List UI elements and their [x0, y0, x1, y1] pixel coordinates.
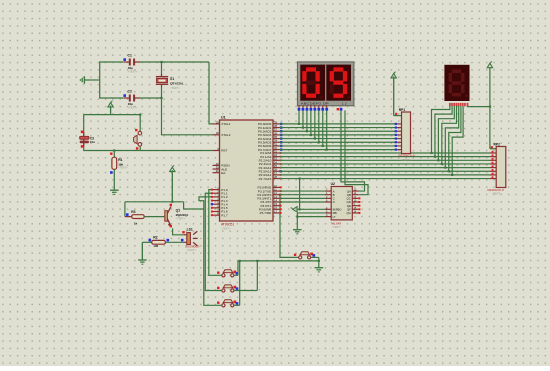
pin P1.1 (2) [213, 192, 220, 194]
svg-text:ABCDEFG DP: ABCDEFG DP [301, 101, 329, 105]
U2 pin QF (15) [352, 208, 359, 210]
wire P3.1 to U2 input [280, 190, 325, 192]
svg-text:24: 24 [274, 160, 277, 164]
svg-text:LS1: LS1 [187, 227, 193, 231]
wire 7seg2 pin 3 drop [310, 110, 312, 135]
svg-text:R1: R1 [118, 158, 122, 162]
power +5V arrow (reset circuit) [110, 106, 112, 115]
wire VCC rail corner to P1 column [184, 202, 204, 209]
wire RBI/LT to ground [296, 213, 298, 230]
wire 7seg1 segment 3 staircase [442, 106, 457, 164]
svg-text:38: 38 [274, 124, 277, 128]
svg-text:18: 18 [216, 131, 219, 135]
pin P1.0 (1) [213, 189, 220, 191]
svg-text:<TEXT>: <TEXT> [170, 86, 180, 90]
svg-text:2N2222A: 2N2222A [176, 213, 190, 217]
svg-text:10u: 10u [90, 140, 95, 144]
wire P0.1 bus row [280, 127, 395, 129]
pin P2.5 (26) [273, 170, 280, 172]
svg-text:RBI: RBI [333, 211, 338, 215]
svg-text:U1: U1 [221, 115, 226, 119]
wire down to R3 [124, 202, 126, 217]
wire 7seg2 pin 6 drop [322, 110, 324, 146]
resistor R3 [125, 216, 132, 218]
wire P0.6 bus row [280, 145, 395, 147]
pin P2.4 (25) [273, 167, 280, 169]
push button reset (vertical) [139, 115, 141, 131]
wire VCC rail of sounder circuit [125, 201, 184, 203]
display pins [298, 108, 301, 111]
svg-text:25: 25 [274, 164, 277, 168]
digit 0 [306, 67, 316, 71]
wire K3 to gnd rail [239, 261, 241, 305]
svg-text:<TEXT>: <TEXT> [492, 192, 502, 196]
transistor Q1 [165, 211, 168, 222]
wire crystal bottom to XTAL2 [162, 86, 213, 135]
svg-text:LT: LT [333, 215, 336, 219]
pin P2.3 (24) [273, 163, 280, 165]
resistor R1 [113, 151, 115, 158]
wire P3.2 to U2 input [280, 194, 325, 196]
svg-text:26: 26 [274, 168, 277, 172]
svg-text:X1: X1 [170, 77, 174, 81]
push button K3 [223, 300, 233, 303]
svg-text:<TEXT>: <TEXT> [221, 227, 231, 231]
wire display common to RP2 column [467, 105, 490, 108]
wire to ground stem [318, 257, 320, 267]
svg-text:QG: QG [346, 211, 351, 215]
svg-text:RESPACK-8: RESPACK-8 [399, 154, 416, 158]
wire K1 right [234, 274, 238, 276]
push button K4 [300, 252, 310, 255]
svg-text:10: 10 [274, 184, 277, 188]
dual 7-segment display (red, showing 09) [297, 62, 354, 106]
wire K4 right [311, 256, 319, 258]
wire BI net [297, 208, 324, 210]
wire Q1 emitter to LS1 [173, 228, 185, 235]
wire R1 to ground [113, 169, 115, 190]
svg-text:<TEXT>: <TEXT> [176, 217, 186, 221]
push button K2 [223, 285, 233, 288]
pin P3.5 (15) [273, 205, 280, 207]
svg-text:D: D [333, 200, 335, 204]
wire to left ground [84, 79, 99, 81]
wire RST net to U1 [84, 150, 213, 152]
svg-text:16: 16 [274, 206, 277, 210]
svg-text:C1: C1 [128, 53, 132, 57]
U2 pin QA (13) [352, 190, 359, 192]
wire LT net [297, 216, 324, 218]
power +5V arrow above RP1 [393, 77, 395, 116]
svg-text:30p: 30p [128, 66, 133, 70]
wire P0.7 bus row [280, 149, 395, 151]
wire RP2 common [490, 148, 496, 150]
wire down to XTAL1 pin [209, 62, 213, 124]
svg-text:12: 12 [274, 191, 277, 195]
svg-text:19: 19 [216, 120, 219, 124]
wire C2 left lead net [100, 97, 124, 99]
wire K1 to gnd rail [237, 261, 239, 275]
wire P2.1 segment row [280, 156, 490, 158]
U2 pin D (6) [325, 201, 332, 203]
display bottom label strip [300, 101, 351, 105]
wire 7seg2 pin 5 drop [318, 110, 320, 142]
svg-text:<TEXT>: <TEXT> [128, 69, 138, 73]
wire P2.6 segment row [280, 174, 490, 176]
wire P2.5 segment row [280, 170, 490, 172]
capacitor C1 [124, 61, 130, 63]
pin P0.6 (33) [273, 145, 280, 147]
wire P2.7 segment row [280, 178, 490, 180]
svg-text:13: 13 [274, 195, 277, 199]
wire 7seg2 pin 2 drop [306, 110, 308, 131]
U2 pin QD (10) [352, 201, 359, 203]
U2 pin QE (9) [352, 205, 359, 207]
pin P3.2 (12) [273, 194, 280, 196]
ground at U2 [293, 229, 302, 231]
svg-text:33: 33 [274, 142, 277, 146]
wire RBI net [297, 212, 324, 214]
svg-text:29: 29 [216, 162, 219, 166]
wire P2.7 tap down to BI [299, 179, 301, 210]
wire P0.3 bus row [280, 134, 395, 136]
wire ground rail [238, 260, 319, 262]
svg-text:CRYSTAL: CRYSTAL [170, 82, 184, 86]
pin P0.0 (39) [273, 123, 280, 125]
sounder LS1 [184, 234, 187, 236]
svg-text:30p: 30p [128, 102, 133, 106]
ground below R2 [138, 259, 147, 261]
pin P2.0 (21) [273, 152, 280, 154]
svg-text:28: 28 [274, 175, 277, 179]
U2 pin B (1) [325, 194, 332, 196]
ground below R1 [110, 189, 119, 191]
U2 pin QC (11) [352, 197, 359, 199]
pin P0.4 (35) [273, 138, 280, 140]
wire P3.4 to U2 input [280, 201, 325, 203]
pin P1.5 (6) [213, 207, 220, 209]
wire P2.3 segment row [280, 163, 490, 165]
wire vertical joining C1/C2 left [99, 61, 101, 98]
svg-text:22: 22 [274, 153, 277, 157]
U2 pin A (7) [325, 190, 332, 192]
pin P1.3 (4) [213, 200, 220, 202]
wire display digit1 common to QA [341, 110, 365, 191]
wire P0.4 bus row [280, 138, 395, 140]
svg-text:P3.7/RD: P3.7/RD [260, 211, 272, 215]
svg-text:RESPACK-8: RESPACK-8 [488, 188, 505, 192]
svg-text:U2: U2 [331, 182, 335, 186]
wire P1.1 to button K2 [205, 193, 221, 290]
svg-text:SOUNDER: SOUNDER [185, 244, 199, 248]
pin XTAL2 (18) [213, 134, 220, 136]
svg-text:34: 34 [274, 139, 277, 143]
pin P3.7 (17) [273, 212, 280, 214]
svg-text:RP2: RP2 [494, 142, 501, 146]
pin P2.6 (27) [273, 174, 280, 176]
wire P0.5 bus row [280, 141, 395, 143]
pin ALE (30) [213, 168, 220, 170]
pin P3.6 (16) [273, 208, 280, 210]
wire K3 right [234, 304, 240, 306]
single 7-segment display (dark) [444, 65, 469, 101]
wire K2 right [234, 290, 257, 292]
svg-text:30: 30 [216, 165, 219, 169]
svg-text:BI/RBO: BI/RBO [333, 208, 342, 212]
pin RST (9) [213, 150, 220, 152]
capacitor C2 [124, 97, 130, 99]
svg-text:<TEXT>: <TEXT> [118, 165, 128, 169]
pin XTAL1 (19) [213, 123, 220, 125]
svg-text:31: 31 [216, 169, 219, 173]
power +5V arrow (sounder) [171, 170, 173, 202]
pin P0.3 (36) [273, 134, 280, 136]
svg-text:15: 15 [274, 202, 277, 206]
wire P2.2 segment row [280, 159, 490, 161]
svg-text:RST: RST [221, 149, 227, 153]
wire RP1 common [394, 115, 402, 117]
svg-text:39: 39 [274, 120, 277, 124]
op-amp U2 body (decoder 74LS47) [331, 187, 352, 220]
svg-text:17: 17 [274, 209, 277, 213]
pin P3.3 (13) [273, 197, 280, 199]
pin P0.2 (37) [273, 130, 280, 132]
svg-text:23: 23 [274, 157, 277, 161]
svg-text:R3: R3 [131, 210, 135, 214]
wire C3 top lead [83, 115, 85, 151]
power arrow (left) at U2 BI [293, 207, 297, 212]
wire P0.2 bus row [280, 130, 395, 132]
pin P2.1 (22) [273, 156, 280, 158]
crystal X1 [161, 74, 163, 76]
wire P1.0 to button K1 [209, 190, 222, 276]
wire 7seg2 pin 1 drop [302, 110, 304, 127]
svg-text:35: 35 [274, 135, 277, 139]
push button K1 [223, 270, 233, 273]
wire P1.2 to button K3 [199, 197, 222, 305]
wire 7seg2 pin 7 drop [326, 110, 328, 149]
svg-text:P1.7: P1.7 [221, 213, 228, 217]
resistor R1 body [112, 157, 117, 169]
resistor R3 body [132, 215, 145, 219]
wire 7seg1 segment 4 staircase [445, 106, 458, 168]
single display pin strip [449, 103, 451, 106]
wire 7seg1 segment 2 staircase [438, 106, 454, 160]
U2 pin LT (3) [325, 216, 332, 218]
pin P0.7 (32) [273, 149, 280, 151]
wire 7seg1 segment 5 staircase [449, 106, 461, 171]
wire P3.3 to U2 input [280, 197, 325, 199]
svg-text:XTAL2: XTAL2 [221, 133, 231, 137]
U2 pin BI/RBO (4) [325, 208, 332, 210]
pin P1.7 (8) [213, 214, 220, 216]
svg-text:XTAL1: XTAL1 [221, 122, 231, 126]
svg-text:P2.7/A15: P2.7/A15 [259, 177, 272, 181]
wire C1 right to XTAL1 corner [140, 61, 210, 63]
resistor R2 [142, 241, 151, 243]
svg-text:100: 100 [153, 244, 158, 248]
capacitor C3 electrolytic [83, 132, 85, 147]
svg-text:RP1: RP1 [399, 108, 406, 112]
svg-text:<TEXT>: <TEXT> [401, 158, 411, 162]
wire K2 to gnd rail [256, 261, 258, 291]
svg-text:<TEXT>: <TEXT> [187, 248, 197, 252]
svg-text:36: 36 [274, 131, 277, 135]
svg-text:14: 14 [274, 198, 277, 202]
svg-text:27: 27 [274, 171, 277, 175]
pin P1.6 (7) [213, 211, 220, 213]
resistor R2 body [152, 240, 166, 244]
svg-text:<TEXT>: <TEXT> [128, 105, 138, 109]
pin P3.4 (14) [273, 201, 280, 203]
op-amp U1 body (microcontroller AT89C51) [220, 120, 274, 221]
wire 7seg2 pin 4 drop [314, 110, 316, 138]
wire P3.2 to button K4 [280, 195, 298, 258]
svg-text:74LS47: 74LS47 [331, 221, 342, 225]
pin P2.2 (23) [273, 159, 280, 161]
wire P2.0 segment row [280, 152, 490, 154]
wire 7seg1 segment 6 staircase [452, 106, 463, 175]
pin P1.4 (5) [213, 203, 220, 205]
wire 7seg1 segment 1 staircase [435, 106, 452, 157]
svg-text:1k: 1k [134, 222, 138, 226]
wire crystal top [161, 62, 163, 76]
wire C2 right to crystal node [140, 97, 162, 99]
wire VCC rail of reset circuit [84, 114, 141, 116]
svg-text:32: 32 [274, 146, 277, 150]
pin P0.5 (34) [273, 141, 280, 143]
wire R2 to ground [141, 242, 143, 260]
svg-text:37: 37 [274, 128, 277, 132]
svg-text:AT89C51: AT89C51 [221, 223, 234, 227]
wire R3 to Q1 base [144, 216, 164, 218]
pin P3.0 (10) [273, 186, 280, 188]
svg-text:21: 21 [274, 149, 277, 153]
svg-text:1 2: 1 2 [342, 101, 348, 105]
pin PSEN (29) [213, 164, 220, 166]
digit 9 [333, 67, 343, 71]
wire R2 to LS1 pin2 [165, 241, 184, 243]
pin P3.1 (11) [273, 190, 280, 192]
U2 pin RBI (5) [325, 212, 332, 214]
wire P2.4 segment row [280, 167, 490, 169]
wire display digit2 common to QB [345, 110, 368, 194]
pin EA (31) [213, 172, 220, 174]
wire C1 left lead net [100, 61, 124, 63]
U2 pin QB (12) [352, 194, 359, 196]
svg-text:C2: C2 [128, 89, 132, 93]
svg-text:R2: R2 [153, 236, 157, 240]
resistor pack RP2 [489, 68, 491, 149]
U2 pin QG (14) [352, 212, 359, 214]
svg-text:<TEXT>: <TEXT> [332, 225, 342, 229]
ground below K4 [315, 267, 324, 269]
U2 pin C (2) [325, 197, 332, 199]
pin P2.7 (28) [273, 178, 280, 180]
wire P0.0 bus row [280, 123, 395, 125]
wire 7seg1 segment 0 staircase [432, 106, 450, 153]
pin P1.2 (3) [213, 196, 220, 198]
ground (rotated) for C1/C2 [83, 76, 85, 83]
pin P0.1 (38) [273, 127, 280, 129]
wire 7seg2 pin 0 drop [298, 110, 300, 124]
